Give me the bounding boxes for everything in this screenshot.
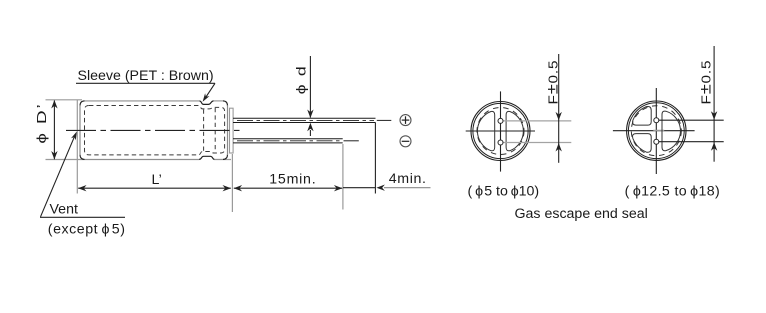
sleeve crimp hidden lines	[203, 110, 205, 152]
seal2 vertical crosshair	[655, 88, 657, 174]
15min dimension line	[234, 187, 342, 189]
svg-text:ϕ d: ϕ d	[295, 64, 309, 94]
seal2 upper-left vent	[633, 106, 652, 125]
bottom lead	[233, 138, 343, 140]
seal1 dashed circle	[477, 108, 524, 155]
svg-text:15min.: 15min.	[269, 172, 316, 188]
seal1 inner circle	[473, 103, 528, 158]
svg-text:ϕ D’: ϕ D’	[35, 102, 49, 143]
seal2 F dimension line	[713, 46, 715, 162]
seal2 right D vent	[662, 111, 680, 151]
seal1 horizontal crosshair	[466, 130, 535, 132]
svg-text:L’: L’	[152, 172, 162, 188]
seal2 outer circle	[627, 101, 686, 160]
body axis centerline	[66, 129, 242, 131]
vent label underline	[40, 216, 125, 218]
seal1 top lead hole	[498, 118, 503, 123]
svg-text:Gas escape end seal: Gas escape end seal	[515, 206, 648, 222]
capacitor body fill	[80, 101, 228, 159]
body top crimp groove	[200, 101, 214, 105]
sleeve label underline	[76, 82, 215, 84]
seal2 horizontal crosshair	[613, 130, 695, 132]
extension line black top-lead-end vertical (4min)	[374, 123, 376, 194]
seal2 lead pitch extension lines	[659, 119, 724, 121]
svg-text:Vent: Vent	[50, 202, 78, 218]
seal2 top lead hole	[654, 118, 659, 123]
top lead centerline	[237, 119, 374, 121]
body left edge (gray hairline)	[79, 105, 81, 155]
L' dimension line	[78, 187, 231, 189]
bottom lead centerline extension	[344, 140, 359, 142]
extension line gray right vertical (L'/15min)	[231, 154, 233, 212]
svg-text:Sleeve (PET : Brown): Sleeve (PET : Brown)	[78, 68, 214, 84]
extension line gray bottom-lead-end vertical (15min)	[342, 144, 344, 210]
body left corners	[80, 101, 85, 106]
extension line gray bottom (phi D')	[46, 159, 200, 161]
extension line gray left vertical (L')	[76, 100, 78, 194]
body right edge (gray hairline)	[227, 105, 229, 155]
seal1 outer circle	[471, 102, 530, 161]
seal2 inner circle	[628, 103, 684, 159]
seal1 left D vent	[477, 111, 494, 150]
svg-text:4min.: 4min.	[389, 171, 427, 187]
sleeve dashed contour	[85, 106, 225, 155]
extension line gray top (phi D')	[46, 99, 83, 101]
top lead centerline extension	[377, 119, 392, 121]
seal disc edge	[230, 108, 234, 153]
body top edge (gray hairline)	[84, 100, 201, 102]
svg-text:( ϕ 5 to ϕ10): ( ϕ 5 to ϕ10)	[468, 184, 540, 200]
seal2 lower-left vent	[633, 134, 652, 153]
top lead	[233, 117, 376, 119]
seal1 bottom lead hole	[498, 140, 503, 145]
seal1 F dimension line	[558, 54, 560, 163]
seal2 bottom lead hole	[654, 139, 659, 144]
vent leader arrow	[41, 136, 75, 217]
sleeve leader arrow	[205, 83, 216, 99]
seal2 gray center bar	[653, 130, 664, 132]
seal1 right D vent	[506, 111, 523, 150]
polarity minus symbol	[400, 136, 411, 147]
seal1 vertical crosshair	[500, 91, 502, 171]
phi d dimension	[309, 56, 311, 118]
body bottom crimp groove	[199, 156, 214, 159]
svg-text:F±0.5: F±0.5	[544, 60, 561, 105]
body bottom edge (gray hairline)	[84, 158, 200, 160]
4min dimension line	[343, 187, 375, 189]
seal2 dashed circle	[631, 106, 681, 156]
phi D' dimension line	[53, 101, 55, 160]
svg-text:F±0.5: F±0.5	[697, 60, 714, 105]
bottom lead centerline	[237, 140, 341, 142]
body right corners	[223, 101, 228, 106]
polarity plus symbol	[400, 115, 411, 126]
svg-text:(except ϕ 5): (except ϕ 5)	[48, 222, 126, 238]
seal1 gray lead pitch lines	[503, 120, 571, 122]
svg-text:( ϕ12.5 to ϕ18): ( ϕ12.5 to ϕ18)	[625, 184, 720, 200]
